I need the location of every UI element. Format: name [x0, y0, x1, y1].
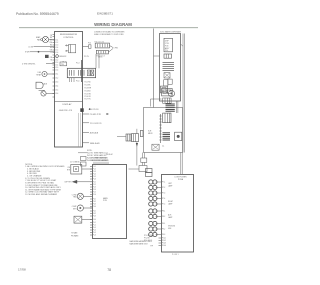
svg-text:P9-1: P9-1	[162, 223, 165, 225]
auger motor hatch block	[166, 104, 175, 111]
svg-text:BU: BU	[50, 47, 52, 49]
junction node dot	[89, 108, 91, 110]
evaporator fan motor M1	[42, 36, 48, 42]
connector strip	[163, 98, 171, 103]
svg-text:TO MAIN: TO MAIN	[71, 232, 77, 235]
control board left pins	[53, 35, 55, 98]
svg-text:P5-4: P5-4	[93, 230, 96, 232]
svg-text:J3-6: J3-6	[55, 93, 58, 95]
svg-text:P7-4: P7-4	[162, 198, 165, 200]
bracket to 6 pin	[108, 46, 113, 53]
svg-text:OR: OR	[50, 57, 53, 59]
thermistor symbol	[55, 54, 59, 58]
left pin wire tags	[50, 35, 53, 62]
svg-text:4 THK GRN/YEL: 4 THK GRN/YEL	[22, 63, 35, 65]
dispenser feed connector cluster	[126, 134, 131, 141]
harness splice block	[146, 169, 153, 173]
svg-text:78: 78	[107, 268, 111, 272]
wires below ice maker	[142, 153, 144, 159]
ice box left edge stub	[140, 131, 143, 137]
svg-text:P9 4WD P/TR: P9 4WD P/TR	[90, 114, 102, 116]
svg-text:DISPLAY: DISPLAY	[62, 103, 72, 106]
svg-text:RIGHT: RIGHT	[168, 201, 173, 203]
svg-text:P1-2: P1-2	[93, 169, 96, 171]
svg-text:2-1: 2-1	[162, 146, 164, 148]
svg-text:P2-2: P2-2	[93, 184, 96, 186]
svg-text:USE: USE	[168, 228, 171, 230]
dispenser solenoid	[161, 86, 168, 93]
wire down to harness connector	[136, 142, 138, 166]
control right pin micro labels	[84, 56, 92, 95]
svg-text:MKR: MKR	[148, 133, 153, 135]
svg-text:J1-1: J1-1	[55, 40, 58, 42]
wires to low power pcb	[180, 153, 182, 175]
svg-text:P1-1: P1-1	[63, 62, 66, 64]
svg-text:CONTROL: CONTROL	[63, 37, 74, 39]
compressor relay box	[71, 165, 82, 175]
low power pin numbers	[162, 182, 165, 237]
svg-text:P7-5: P7-5	[162, 204, 165, 206]
light switch circle	[41, 91, 46, 96]
svg-text:J2-2: J2-2	[55, 60, 58, 62]
relay K1 inside control	[69, 45, 76, 53]
wire from control to connector board	[83, 46, 89, 48]
svg-text:P3-3: P3-3	[93, 204, 96, 206]
connector block tails	[69, 77, 71, 82]
svg-text:EW28BS71: EW28BS71	[97, 12, 113, 16]
ice maker connector strip vertical	[160, 114, 162, 143]
svg-text:13. MODEL AND SERIAL NUMBER: 13. MODEL AND SERIAL NUMBER	[25, 193, 57, 196]
svg-text:P5-3: P5-3	[93, 227, 96, 229]
labeled wire to door	[83, 122, 89, 124]
svg-text:P6 4B-4C: P6 4B-4C	[106, 154, 114, 156]
svg-text:P10-4: P10-4	[162, 245, 166, 247]
main board left pins	[90, 167, 92, 236]
svg-text:P2-6: P2-6	[93, 194, 96, 196]
svg-text:4 AND CONN BOARD TO DISP CONN: 4 AND CONN BOARD TO DISP CONN	[94, 33, 124, 36]
svg-text:P1-6: P1-6	[93, 179, 96, 181]
svg-text:P4-4: P4-4	[93, 219, 96, 221]
wire through connector	[81, 60, 83, 82]
svg-text:P7-2 BK: P7-2 BK	[144, 238, 150, 240]
svg-text:P2-4 BU: P2-4 BU	[85, 90, 92, 92]
svg-text:P9-3: P9-3	[162, 234, 165, 236]
svg-text:P1-3: P1-3	[76, 63, 79, 65]
ice maker mold switch	[152, 144, 159, 150]
svg-text:TSTAT: TSTAT	[36, 74, 41, 77]
svg-text:COMP: COMP	[72, 206, 77, 208]
dispenser lamp icon	[164, 54, 172, 58]
freezer section components above ice maker	[164, 80, 168, 86]
svg-text:P2-2 BK: P2-2 BK	[85, 84, 92, 86]
svg-text:DEF HTR: DEF HTR	[65, 182, 73, 184]
svg-text:J2-3: J2-3	[55, 62, 58, 64]
dispenser switch	[164, 73, 170, 78]
svg-text:J1-3: J1-3	[55, 45, 58, 47]
wire pair tall box to ice connector	[176, 101, 178, 113]
svg-text:PCB: PCB	[165, 45, 168, 47]
svg-text:J2-4: J2-4	[55, 65, 58, 67]
connector block P1 on control right edge	[67, 68, 95, 77]
svg-text:P2-4: P2-4	[93, 189, 96, 191]
svg-text:P1-1: P1-1	[93, 166, 96, 168]
svg-text:4 P/N CN: 4 P/N CN	[91, 109, 99, 111]
legend link wire	[78, 152, 87, 154]
svg-text:J3-4: J3-4	[55, 86, 58, 88]
svg-text:P7-1 BK-WH: P7-1 BK-WH	[144, 235, 153, 237]
svg-text:P2-5: P2-5	[93, 192, 96, 194]
svg-text:17/08: 17/08	[18, 268, 26, 272]
dispenser control module	[164, 38, 173, 52]
svg-text:LEFT: LEFT	[168, 183, 172, 185]
svg-text:P2-3: P2-3	[93, 187, 96, 189]
defrost heater diode	[72, 180, 77, 183]
svg-text:P2-7 TN: P2-7 TN	[85, 99, 92, 101]
svg-text:WIRING DIAGRAM: WIRING DIAGRAM	[94, 22, 132, 27]
cluster drop wires	[95, 54, 97, 68]
wire N with junction	[30, 51, 55, 53]
svg-text:P8-2: P8-2	[162, 216, 165, 218]
svg-text:P1-3: P1-3	[93, 171, 96, 173]
vertical wire to ice maker	[153, 29, 155, 108]
svg-text:J1-5: J1-5	[55, 50, 58, 52]
svg-text:RTE: RTE	[67, 169, 70, 171]
svg-text:P8-1: P8-1	[162, 211, 165, 213]
svg-text:TN: TN	[50, 60, 52, 62]
svg-text:P14: P14	[88, 42, 91, 44]
ice maker motor	[175, 132, 182, 140]
svg-text:J3-1: J3-1	[55, 74, 58, 76]
svg-text:P4-3: P4-3	[93, 216, 96, 218]
edge connector blob	[45, 55, 49, 58]
svg-text:PCBA: PCBA	[178, 178, 184, 181]
svg-text:P10-2: P10-2	[162, 240, 166, 242]
svg-text:P9-2: P9-2	[162, 229, 165, 231]
svg-text:ICE: ICE	[67, 167, 70, 169]
svg-text:PCB: PCB	[103, 200, 107, 202]
svg-text:SENSOR: SENSOR	[60, 56, 68, 58]
svg-text:4-T CONN BD: 4-T CONN BD	[70, 161, 80, 163]
svg-text:J3-3: J3-3	[55, 82, 58, 84]
wire ground	[46, 63, 55, 65]
header rule	[19, 27, 198, 29]
svg-text:P4-1: P4-1	[93, 211, 96, 213]
defrost thermostat S1	[42, 71, 47, 76]
svg-text:P1-5: P1-5	[93, 176, 96, 178]
svg-text:P2-6 OR: P2-6 OR	[85, 96, 92, 98]
low power internal labels	[168, 183, 176, 230]
svg-text:TO DOOR P/S: TO DOOR P/S	[90, 123, 103, 125]
svg-text:P-1 OF 1: P-1 OF 1	[172, 254, 179, 256]
svg-text:P7-4 GN-YL: P7-4 GN-YL	[144, 240, 152, 242]
wire color legend block	[87, 150, 108, 162]
low power bottom pins	[159, 238, 162, 246]
wire L to ice box	[151, 99, 162, 107]
svg-text:4 A/W P/N L-P/S: 4 A/W P/N L-P/S	[59, 109, 73, 112]
svg-text:DISP: DISP	[165, 40, 169, 42]
svg-text:CTRL: CTRL	[165, 43, 169, 45]
dispenser heater hatch	[163, 63, 175, 71]
svg-text:A1/B1-A/B: A1/B1-A/B	[90, 131, 99, 134]
svg-text:P5-6: P5-6	[93, 235, 96, 237]
svg-text:J3-2: J3-2	[55, 78, 58, 80]
svg-text:P10-1: P10-1	[162, 238, 166, 240]
svg-text:P/N HARN: P/N HARN	[71, 234, 78, 237]
svg-text:GROUND: GROUND	[168, 226, 176, 228]
notes list block	[25, 164, 65, 196]
labeled wire A1/B1	[83, 131, 89, 133]
svg-text:P10-3: P10-3	[162, 243, 166, 245]
svg-text:REFRIGERATOR: REFRIGERATOR	[60, 33, 78, 36]
display harness arrow	[80, 108, 83, 112]
svg-text:P2-1 RD: P2-1 RD	[85, 81, 92, 83]
svg-text:P2-5 GN: P2-5 GN	[85, 93, 92, 95]
svg-text:P7-1: P7-1	[162, 182, 165, 184]
ice maker compartment box	[144, 108, 183, 153]
svg-text:J2-5: J2-5	[55, 67, 58, 69]
svg-text:P20: P20	[165, 50, 168, 52]
svg-text:P3-4: P3-4	[93, 206, 96, 208]
main board pin labels	[93, 166, 96, 237]
svg-text:J1-2: J1-2	[55, 42, 58, 44]
svg-text:J1-4: J1-4	[55, 47, 58, 49]
svg-text:Publication No. 5995544679: Publication No. 5995544679	[16, 12, 59, 16]
TB label box	[60, 62, 67, 66]
svg-text:P1-4: P1-4	[93, 174, 96, 176]
connector J6 bottom	[96, 50, 108, 54]
svg-text:FM: FM	[50, 37, 53, 39]
svg-text:J2-6: J2-6	[55, 70, 58, 72]
svg-text:P1-6: P1-6	[76, 81, 79, 83]
main control board	[93, 165, 127, 239]
labeled wire TAKE-N	[83, 142, 89, 144]
wire stub left of cluster	[117, 136, 126, 138]
svg-text:AUX: AUX	[168, 214, 172, 217]
low power ticks to board	[156, 182, 161, 235]
svg-text:ICE & WATER DISPENSER: ICE & WATER DISPENSER	[160, 31, 182, 34]
svg-text:J1-6: J1-6	[55, 52, 58, 54]
low power connector circles column	[149, 180, 157, 237]
ice maker connector box	[163, 113, 171, 123]
svg-text:P3-2: P3-2	[93, 201, 96, 203]
svg-text:GN: GN	[50, 50, 52, 52]
labeled wire P9	[83, 113, 89, 115]
svg-text:P2-3 WH: P2-3 WH	[85, 87, 92, 89]
svg-text:N WH: N WH	[25, 52, 30, 54]
compressor motor	[77, 205, 83, 211]
svg-text:BK: BK	[50, 40, 52, 42]
display section divider	[55, 101, 83, 103]
svg-text:P7-2: P7-2	[162, 187, 165, 189]
svg-text:COND: COND	[72, 194, 78, 196]
svg-text:P4-2: P4-2	[93, 213, 96, 215]
svg-text:P7-3: P7-3	[162, 193, 165, 195]
svg-text:CN: CN	[50, 35, 52, 37]
small relay boxes above main board	[81, 157, 87, 161]
main board top pins	[94, 162, 108, 164]
svg-text:P5-2: P5-2	[93, 225, 96, 227]
ice maker heater hatch	[163, 133, 171, 140]
condenser fan motor	[77, 193, 83, 199]
dispenser right double wire	[182, 34, 184, 153]
low power pcba board	[162, 175, 194, 253]
control board left pin micro labels	[55, 40, 58, 95]
svg-text:YL: YL	[50, 52, 52, 54]
water valve box	[74, 216, 82, 223]
svg-text:P2 CN: P2 CN	[84, 56, 90, 58]
wire stub to bus	[181, 44, 184, 46]
svg-text:L1 BK: L1 BK	[28, 47, 33, 49]
svg-text:P5-1: P5-1	[93, 222, 96, 224]
dispenser motor circle	[168, 90, 174, 96]
svg-text:ALM: ALM	[44, 83, 48, 86]
wire L1	[34, 46, 55, 48]
down arrow junction	[136, 143, 138, 147]
svg-text:RD: RD	[50, 45, 53, 47]
svg-text:P3-1: P3-1	[93, 199, 96, 201]
refrigerator control board U1	[55, 32, 83, 148]
svg-text:TAKE-N A/B: TAKE-N A/B	[90, 142, 101, 145]
svg-text:P2-1: P2-1	[93, 181, 96, 183]
alarm buzzer	[36, 82, 43, 88]
svg-text:TYP: TYP	[150, 246, 153, 248]
svg-text:6 PIN: 6 PIN	[114, 48, 119, 50]
svg-text:P5-5: P5-5	[93, 232, 96, 234]
svg-text:J3-5: J3-5	[55, 90, 58, 92]
display drop wires	[78, 113, 80, 147]
double switch box	[162, 89, 173, 96]
pin tag rows lower right of control	[85, 56, 104, 100]
svg-text:MTR: MTR	[73, 208, 77, 210]
svg-text:WH: WH	[50, 42, 53, 44]
